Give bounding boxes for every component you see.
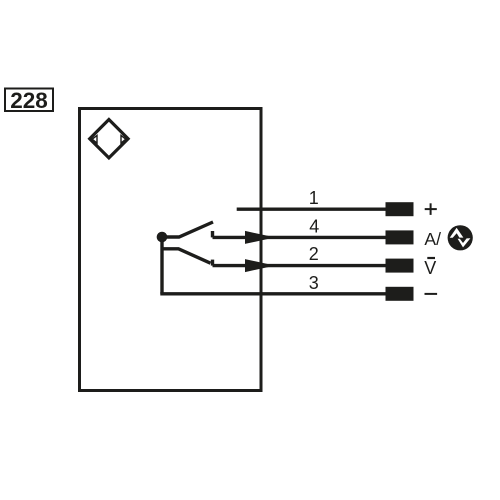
- label V bar: [424, 258, 436, 278]
- svg-text:4: 4: [309, 216, 319, 236]
- figure label 228: [5, 88, 53, 113]
- terminal block pin 3: [386, 287, 414, 301]
- wire 3: [160, 292, 385, 295]
- sensor body outline: [80, 109, 262, 391]
- switch common node dot: [157, 232, 168, 243]
- terminal block pin 2: [386, 259, 414, 273]
- pin 4 contact stub: [211, 231, 214, 237]
- wire 1: [237, 207, 386, 210]
- sensor symbol diamond: [90, 120, 128, 158]
- svg-text:2: 2: [309, 244, 319, 264]
- label plus (supply +): [425, 203, 437, 215]
- switching output icon (circle with up/down chevrons): [448, 225, 473, 250]
- terminal block pin 4: [386, 230, 414, 244]
- svg-text:1: 1: [309, 188, 319, 208]
- vertical wire from node down to pin 3 wire: [160, 240, 163, 294]
- arrow on wire 2: [245, 259, 275, 272]
- svg-text:228: 228: [10, 88, 48, 113]
- wire 2: [213, 264, 386, 267]
- terminal block pin 1: [386, 202, 414, 216]
- diamond left triangle: [92, 135, 97, 143]
- pin 2 contact stub: [211, 260, 214, 266]
- wire 4: [213, 236, 386, 239]
- switch moving arm (open, to pin 4): [166, 222, 213, 237]
- svg-text:V: V: [424, 258, 436, 278]
- diamond right triangle: [121, 135, 126, 143]
- arrow on wire 4: [245, 231, 275, 244]
- switch lower arm (to pin 2): [162, 249, 211, 263]
- label minus (supply -): [425, 293, 438, 295]
- svg-text:3: 3: [309, 273, 319, 293]
- svg-text:A/: A/: [424, 229, 441, 249]
